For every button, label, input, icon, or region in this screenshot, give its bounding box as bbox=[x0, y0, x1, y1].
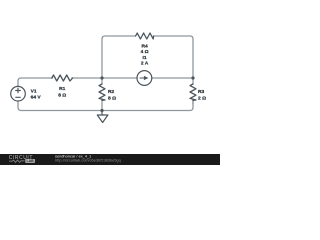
svg-text:2 Ω: 2 Ω bbox=[198, 96, 206, 102]
wire: V1 bottom to bottom rail and right to R2 bottom bbox=[18, 101, 102, 111]
wire: left rail from V1 top up and corner to the right bbox=[18, 78, 53, 86]
svg-text:R4: R4 bbox=[141, 43, 148, 49]
ground bbox=[97, 111, 108, 123]
svg-text:R3: R3 bbox=[198, 89, 205, 95]
svg-text:V1: V1 bbox=[31, 89, 37, 95]
wire: upper loop R4 right to right rail down to node B bbox=[154, 36, 193, 78]
svg-text:4 Ω: 4 Ω bbox=[141, 49, 149, 55]
svg-text:8 Ω: 8 Ω bbox=[58, 92, 66, 98]
svg-text:R2: R2 bbox=[108, 89, 115, 95]
svg-text:R1: R1 bbox=[59, 86, 66, 92]
wire: bottom rail from ground node to R3 bottom bbox=[102, 101, 193, 111]
wire: R3 top lead from node B bbox=[192, 78, 194, 84]
wire: R2 bottom lead to bottom rail bbox=[101, 100, 103, 110]
svg-text:8 Ω: 8 Ω bbox=[108, 95, 116, 101]
wire: upper loop left rail, top rail to R4 left bbox=[102, 36, 136, 78]
node B junction dot bbox=[191, 76, 194, 79]
CircuitLab logo resistor squiggle bbox=[9, 160, 25, 163]
ground node junction dot bbox=[100, 109, 103, 112]
voltage source V1 bbox=[11, 86, 26, 101]
svg-text:I1: I1 bbox=[143, 55, 147, 61]
svg-text:64 V: 64 V bbox=[31, 95, 42, 101]
wire: middle rail between R1 and node A bbox=[72, 77, 102, 79]
wire: R2 top lead from node A bbox=[101, 78, 103, 84]
svg-text:LAB: LAB bbox=[26, 159, 34, 163]
svg-text:http://circuitlab.com/c6e3bf23: http://circuitlab.com/c6e3bf2383be5gq bbox=[55, 157, 121, 162]
current source I1 bbox=[137, 71, 152, 86]
wire: R3 bottom lead bbox=[192, 100, 194, 104]
wire: middle rail node A to current source I1 left lead bbox=[102, 77, 137, 79]
resistor R3 bbox=[190, 84, 196, 100]
footer bar bbox=[0, 154, 220, 165]
resistor R2 bbox=[99, 84, 105, 100]
wire: current source I1 right lead to node B bbox=[152, 77, 193, 79]
resistor R4 bbox=[136, 33, 154, 39]
resistor R1 bbox=[52, 75, 73, 81]
svg-text:2 A: 2 A bbox=[141, 61, 149, 67]
CircuitLab logo LAB badge bbox=[25, 159, 35, 163]
node A junction dot bbox=[100, 76, 103, 79]
